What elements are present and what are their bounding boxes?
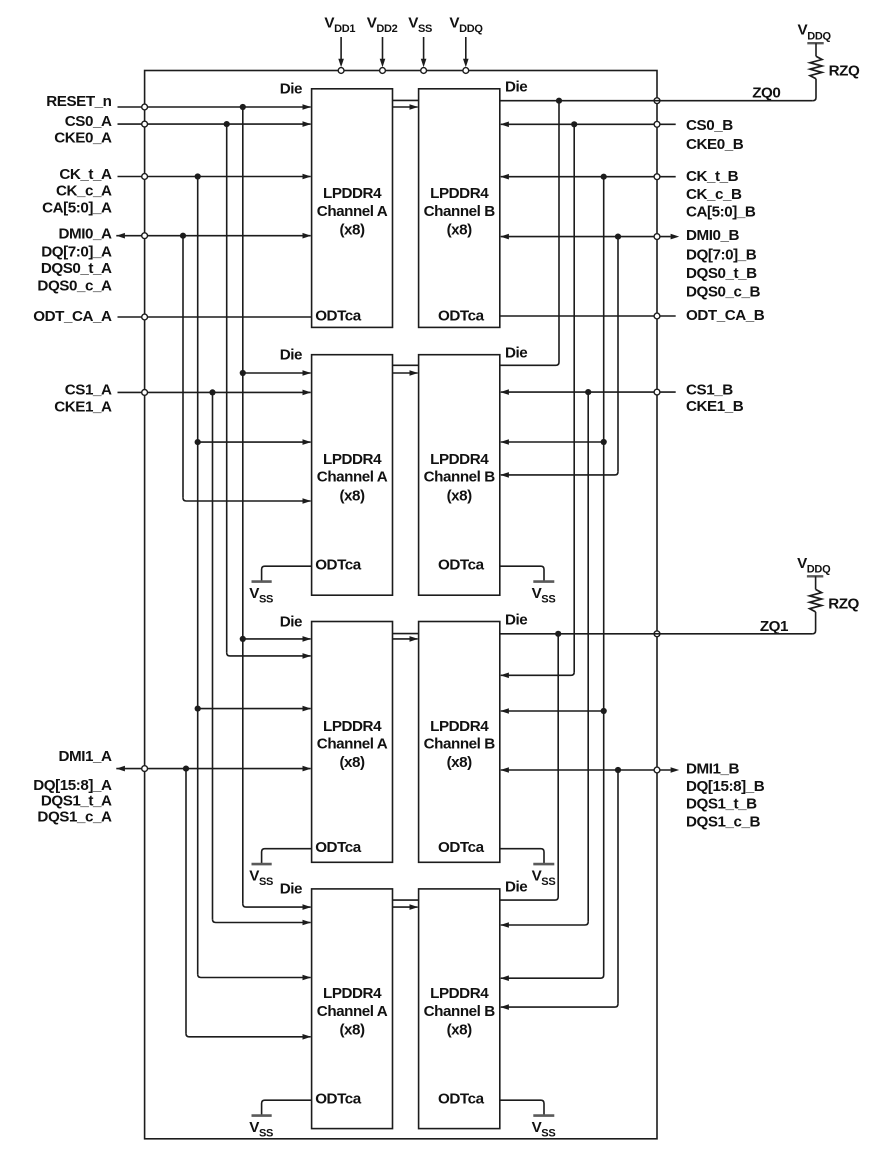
svg-text:Die: Die <box>280 613 302 630</box>
svg-text:LPDDR4: LPDDR4 <box>430 451 489 468</box>
svg-text:CK_c_A: CK_c_A <box>56 182 112 199</box>
svg-text:LPDDR4: LPDDR4 <box>430 718 489 735</box>
svg-text:RZQ: RZQ <box>829 63 860 80</box>
svg-text:Die: Die <box>505 611 527 628</box>
svg-text:CK_c_B: CK_c_B <box>686 186 742 203</box>
svg-text:ODTca: ODTca <box>315 1091 362 1108</box>
svg-text:(x8): (x8) <box>447 754 473 771</box>
svg-text:DQ[7:0]_A: DQ[7:0]_A <box>41 243 112 260</box>
svg-text:ZQ1: ZQ1 <box>760 618 789 635</box>
svg-text:Channel B: Channel B <box>424 1003 496 1020</box>
svg-text:VSS: VSS <box>532 585 556 606</box>
svg-text:ODTca: ODTca <box>438 557 485 574</box>
svg-text:LPDDR4: LPDDR4 <box>430 185 489 202</box>
svg-text:ODT_CA_B: ODT_CA_B <box>686 307 765 324</box>
svg-text:CKE1_B: CKE1_B <box>686 398 744 415</box>
svg-text:DQ[15:8]_B: DQ[15:8]_B <box>686 778 765 795</box>
svg-text:Channel B: Channel B <box>424 736 496 753</box>
svg-text:DQS0_c_A: DQS0_c_A <box>37 277 112 294</box>
svg-text:DMI1_B: DMI1_B <box>686 760 739 777</box>
svg-text:ZQ0: ZQ0 <box>752 85 780 102</box>
svg-text:(x8): (x8) <box>447 221 473 238</box>
svg-text:DQ[7:0]_B: DQ[7:0]_B <box>686 246 757 263</box>
svg-text:VDD2: VDD2 <box>367 14 398 35</box>
svg-text:VSS: VSS <box>532 867 556 888</box>
svg-text:VSS: VSS <box>249 867 273 888</box>
svg-text:Die: Die <box>280 881 302 898</box>
svg-text:DQS0_t_B: DQS0_t_B <box>686 265 757 282</box>
svg-text:ODTca: ODTca <box>438 1091 485 1108</box>
svg-text:CA[5:0]_B: CA[5:0]_B <box>686 204 756 221</box>
svg-text:DQS1_t_B: DQS1_t_B <box>686 795 757 812</box>
svg-text:Channel A: Channel A <box>317 736 388 753</box>
svg-text:LPDDR4: LPDDR4 <box>323 985 382 1002</box>
svg-text:CS1_A: CS1_A <box>65 382 112 399</box>
svg-text:DMI0_A: DMI0_A <box>59 225 112 242</box>
svg-text:ODT_CA_A: ODT_CA_A <box>33 308 112 325</box>
svg-text:(x8): (x8) <box>447 487 473 504</box>
svg-text:DMI0_B: DMI0_B <box>686 227 739 244</box>
svg-text:LPDDR4: LPDDR4 <box>323 718 382 735</box>
svg-text:(x8): (x8) <box>339 221 365 238</box>
svg-text:(x8): (x8) <box>339 1022 365 1039</box>
svg-text:RESET_n: RESET_n <box>46 93 111 110</box>
svg-text:ODTca: ODTca <box>315 839 362 856</box>
svg-text:Die: Die <box>505 879 527 896</box>
svg-text:CK_t_A: CK_t_A <box>59 166 112 183</box>
svg-text:VDDQ: VDDQ <box>798 22 832 43</box>
svg-text:DMI1_A: DMI1_A <box>59 748 112 765</box>
svg-text:VSS: VSS <box>249 585 273 606</box>
svg-text:ODTca: ODTca <box>438 307 485 324</box>
svg-text:DQS1_c_A: DQS1_c_A <box>37 808 112 825</box>
svg-text:(x8): (x8) <box>339 487 365 504</box>
svg-text:ODTca: ODTca <box>315 307 362 324</box>
svg-text:Channel A: Channel A <box>317 469 388 486</box>
svg-text:CS0_B: CS0_B <box>686 117 733 134</box>
svg-text:CA[5:0]_A: CA[5:0]_A <box>42 199 112 216</box>
svg-text:ODTca: ODTca <box>315 557 362 574</box>
svg-text:Channel A: Channel A <box>317 203 388 220</box>
svg-text:DQS1_t_A: DQS1_t_A <box>41 792 112 809</box>
svg-text:ODTca: ODTca <box>438 839 485 856</box>
svg-text:LPDDR4: LPDDR4 <box>323 185 382 202</box>
svg-text:(x8): (x8) <box>447 1022 473 1039</box>
svg-text:CKE1_A: CKE1_A <box>54 398 112 415</box>
svg-text:DQS0_t_A: DQS0_t_A <box>41 260 112 277</box>
svg-text:RZQ: RZQ <box>828 596 859 613</box>
svg-text:VSS: VSS <box>408 14 432 35</box>
svg-text:CS1_B: CS1_B <box>686 382 733 399</box>
svg-text:VSS: VSS <box>249 1119 273 1140</box>
svg-text:Die: Die <box>505 345 527 362</box>
svg-text:DQS1_c_B: DQS1_c_B <box>686 814 761 831</box>
svg-text:Channel B: Channel B <box>424 203 496 220</box>
svg-text:VDDQ: VDDQ <box>797 555 831 576</box>
svg-text:Channel A: Channel A <box>317 1003 388 1020</box>
svg-text:(x8): (x8) <box>339 754 365 771</box>
svg-text:DQS0_c_B: DQS0_c_B <box>686 283 761 300</box>
svg-text:Channel B: Channel B <box>424 469 496 486</box>
svg-text:VSS: VSS <box>532 1119 556 1140</box>
svg-text:CKE0_A: CKE0_A <box>54 130 112 147</box>
svg-text:Die: Die <box>280 347 302 364</box>
svg-text:VDDQ: VDDQ <box>449 14 483 35</box>
svg-text:Die: Die <box>505 79 527 96</box>
svg-text:CS0_A: CS0_A <box>65 113 112 130</box>
svg-text:LPDDR4: LPDDR4 <box>323 451 382 468</box>
svg-text:CK_t_B: CK_t_B <box>686 168 739 185</box>
svg-text:CKE0_B: CKE0_B <box>686 136 744 153</box>
svg-text:LPDDR4: LPDDR4 <box>430 985 489 1002</box>
svg-text:Die: Die <box>280 81 302 98</box>
svg-text:VDD1: VDD1 <box>324 14 355 35</box>
